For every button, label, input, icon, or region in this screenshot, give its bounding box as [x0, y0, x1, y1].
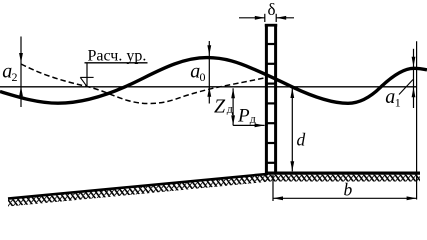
svg-text:2: 2 [12, 70, 18, 84]
still water line (design level) [0, 86, 417, 88]
sloped seabed line [8, 174, 268, 199]
svg-text:d: d [297, 130, 306, 150]
d dimension line [291, 88, 293, 171]
svg-text:Z: Z [214, 95, 226, 117]
solid wave profile [0, 58, 427, 104]
svg-text:д: д [227, 102, 233, 116]
b dimension line [273, 197, 417, 199]
svg-text:0: 0 [200, 70, 206, 84]
svg-text:Расч. ур.: Расч. ур. [88, 48, 147, 65]
Zd dimension line [232, 88, 234, 125]
delta dimension line right [276, 17, 294, 19]
pile top cap [265, 24, 277, 27]
hatch band under slope [8, 175, 268, 207]
a1 leader line [399, 80, 413, 95]
dashed wave profile (second phase) [21, 64, 265, 104]
svg-text:b: b [344, 179, 353, 199]
svg-text:δ: δ [268, 0, 276, 19]
delta dimension extension ticks [264, 14, 266, 22]
b dimension left extension [272, 175, 274, 201]
a2 dimension line [20, 37, 22, 108]
pile right wall [274, 24, 277, 174]
pile left wall [265, 24, 268, 174]
flat seabed line [265, 172, 420, 175]
a0 dimension line [208, 41, 210, 104]
level mark leader [86, 63, 88, 87]
right boundary extension line [416, 41, 418, 199]
svg-text:a: a [385, 86, 395, 108]
delta dimension line left [239, 17, 265, 19]
a1 dimension line [413, 49, 415, 108]
svg-text:1: 1 [395, 95, 401, 109]
svg-text:P: P [237, 105, 250, 126]
design level underline [85, 62, 148, 64]
svg-text:д: д [250, 112, 256, 126]
hatch band under flat ground [265, 175, 420, 182]
level mark flag bar [80, 76, 93, 78]
Pd force arrow [233, 124, 265, 126]
pile rungs [267, 44, 276, 163]
level mark flag hypotenuse [80, 77, 87, 86]
